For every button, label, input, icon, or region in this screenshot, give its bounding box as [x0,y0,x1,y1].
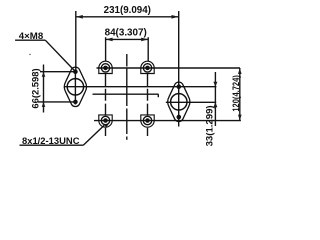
svg-text:231(9.094): 231(9.094) [104,5,151,16]
svg-text:33(1.299): 33(1.299) [205,105,215,146]
svg-text:4×M8: 4×M8 [19,31,43,42]
svg-text:8x1/2-13UNC: 8x1/2-13UNC [22,136,80,146]
svg-text:120(4.724): 120(4.724) [231,75,241,112]
svg-text:84(3.307): 84(3.307) [105,27,147,38]
svg-text:66(2.598): 66(2.598) [29,68,40,108]
